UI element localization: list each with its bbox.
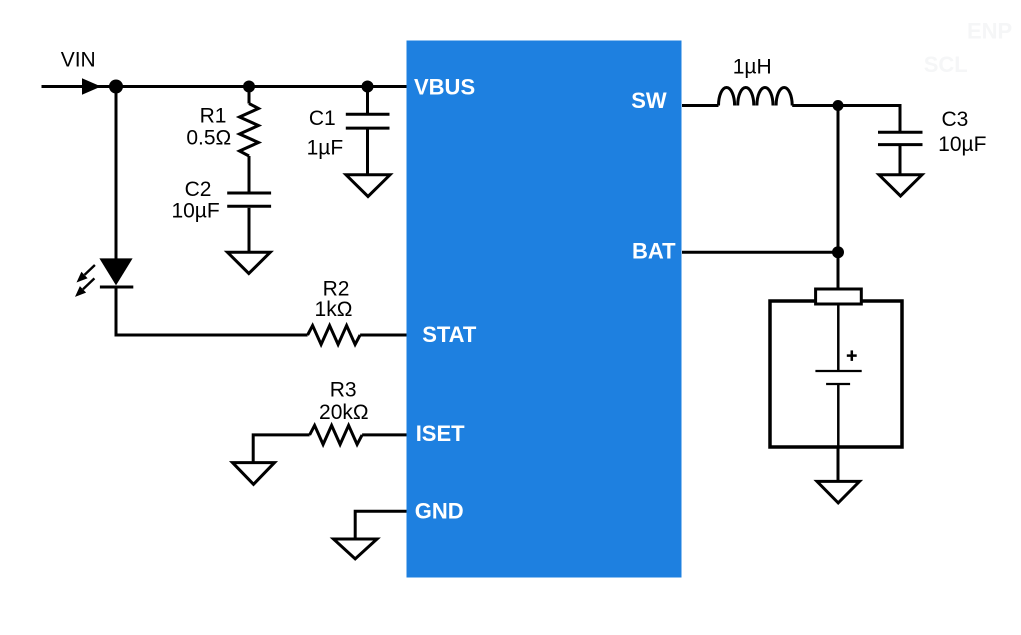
svg-text:1kΩ: 1kΩ — [315, 298, 353, 321]
ground under R3 — [233, 463, 275, 485]
ground under C3 — [879, 175, 922, 196]
wire R1 top stub — [248, 87, 251, 104]
svg-text:0.5Ω: 0.5Ω — [186, 126, 231, 149]
battery plus sign — [847, 350, 857, 361]
ground under battery — [817, 481, 860, 503]
wire SW node down to BAT node — [837, 106, 840, 253]
svg-text:1µF: 1µF — [307, 137, 344, 160]
node junction dot C1 top — [362, 81, 374, 93]
node junction dot BAT — [832, 246, 844, 258]
svg-text:ENP: ENP — [967, 19, 1012, 44]
svg-text:SW: SW — [631, 88, 667, 113]
wire C3 to ground — [899, 146, 902, 175]
svg-text:VIN: VIN — [61, 48, 96, 71]
ground under C1 — [346, 175, 390, 197]
svg-text:10µF: 10µF — [171, 200, 219, 223]
capacitor C2 — [227, 193, 271, 206]
wire SW to inductor — [682, 104, 719, 107]
IC U1 body — [407, 41, 682, 578]
node junction dot SW/BAT — [833, 100, 844, 111]
battery cell BT1 — [815, 304, 861, 447]
wire VIN node down to LED — [115, 87, 118, 260]
svg-text:C1: C1 — [309, 107, 336, 130]
wire GND pin to ground — [355, 511, 406, 539]
wire R1 to C2 — [248, 156, 251, 192]
svg-text:C3: C3 — [941, 108, 968, 131]
wire battery to ground — [837, 447, 840, 482]
ground at GND pin — [334, 539, 378, 559]
wire R2 to STAT — [360, 334, 406, 337]
node junction dot R1 top — [243, 81, 255, 93]
svg-text:1µH: 1µH — [733, 56, 772, 79]
svg-text:SCL: SCL — [924, 52, 968, 77]
wire BAT node to battery — [837, 252, 840, 290]
arrow VIN input — [82, 78, 101, 95]
battery protection element — [816, 289, 862, 304]
svg-text:ISET: ISET — [416, 421, 465, 446]
svg-text:GND: GND — [415, 499, 464, 524]
resistor R1 — [240, 104, 259, 157]
LED D1 — [75, 258, 133, 297]
wire LED cathode down and right to R2 — [116, 287, 308, 335]
capacitor C3 — [878, 132, 923, 144]
ground under C2 — [227, 252, 270, 273]
wire VIN to VBUS — [42, 85, 407, 88]
inductor L1 — [719, 88, 793, 106]
wire inductor to C3 — [792, 106, 900, 132]
svg-text:R3: R3 — [330, 378, 357, 401]
svg-text:C2: C2 — [185, 178, 212, 201]
wire BAT pin to node — [682, 251, 838, 254]
svg-text:20kΩ: 20kΩ — [319, 401, 369, 424]
wire C1 to ground — [366, 130, 369, 176]
resistor R3 — [310, 425, 363, 444]
battery pack box — [770, 301, 902, 447]
wire C1 top stub — [366, 87, 369, 114]
resistor R2 — [308, 326, 361, 345]
svg-text:STAT: STAT — [422, 322, 477, 347]
svg-text:10µF: 10µF — [938, 133, 986, 156]
wire R3 to ISET — [362, 433, 406, 436]
wire ground to R3 — [253, 435, 309, 463]
node junction dot VIN/LED — [109, 80, 123, 94]
svg-text:VBUS: VBUS — [414, 74, 475, 99]
svg-text:BAT: BAT — [632, 238, 676, 263]
capacitor C1 — [346, 114, 390, 128]
wire C2 to ground — [248, 208, 251, 253]
svg-text:R1: R1 — [200, 104, 227, 127]
